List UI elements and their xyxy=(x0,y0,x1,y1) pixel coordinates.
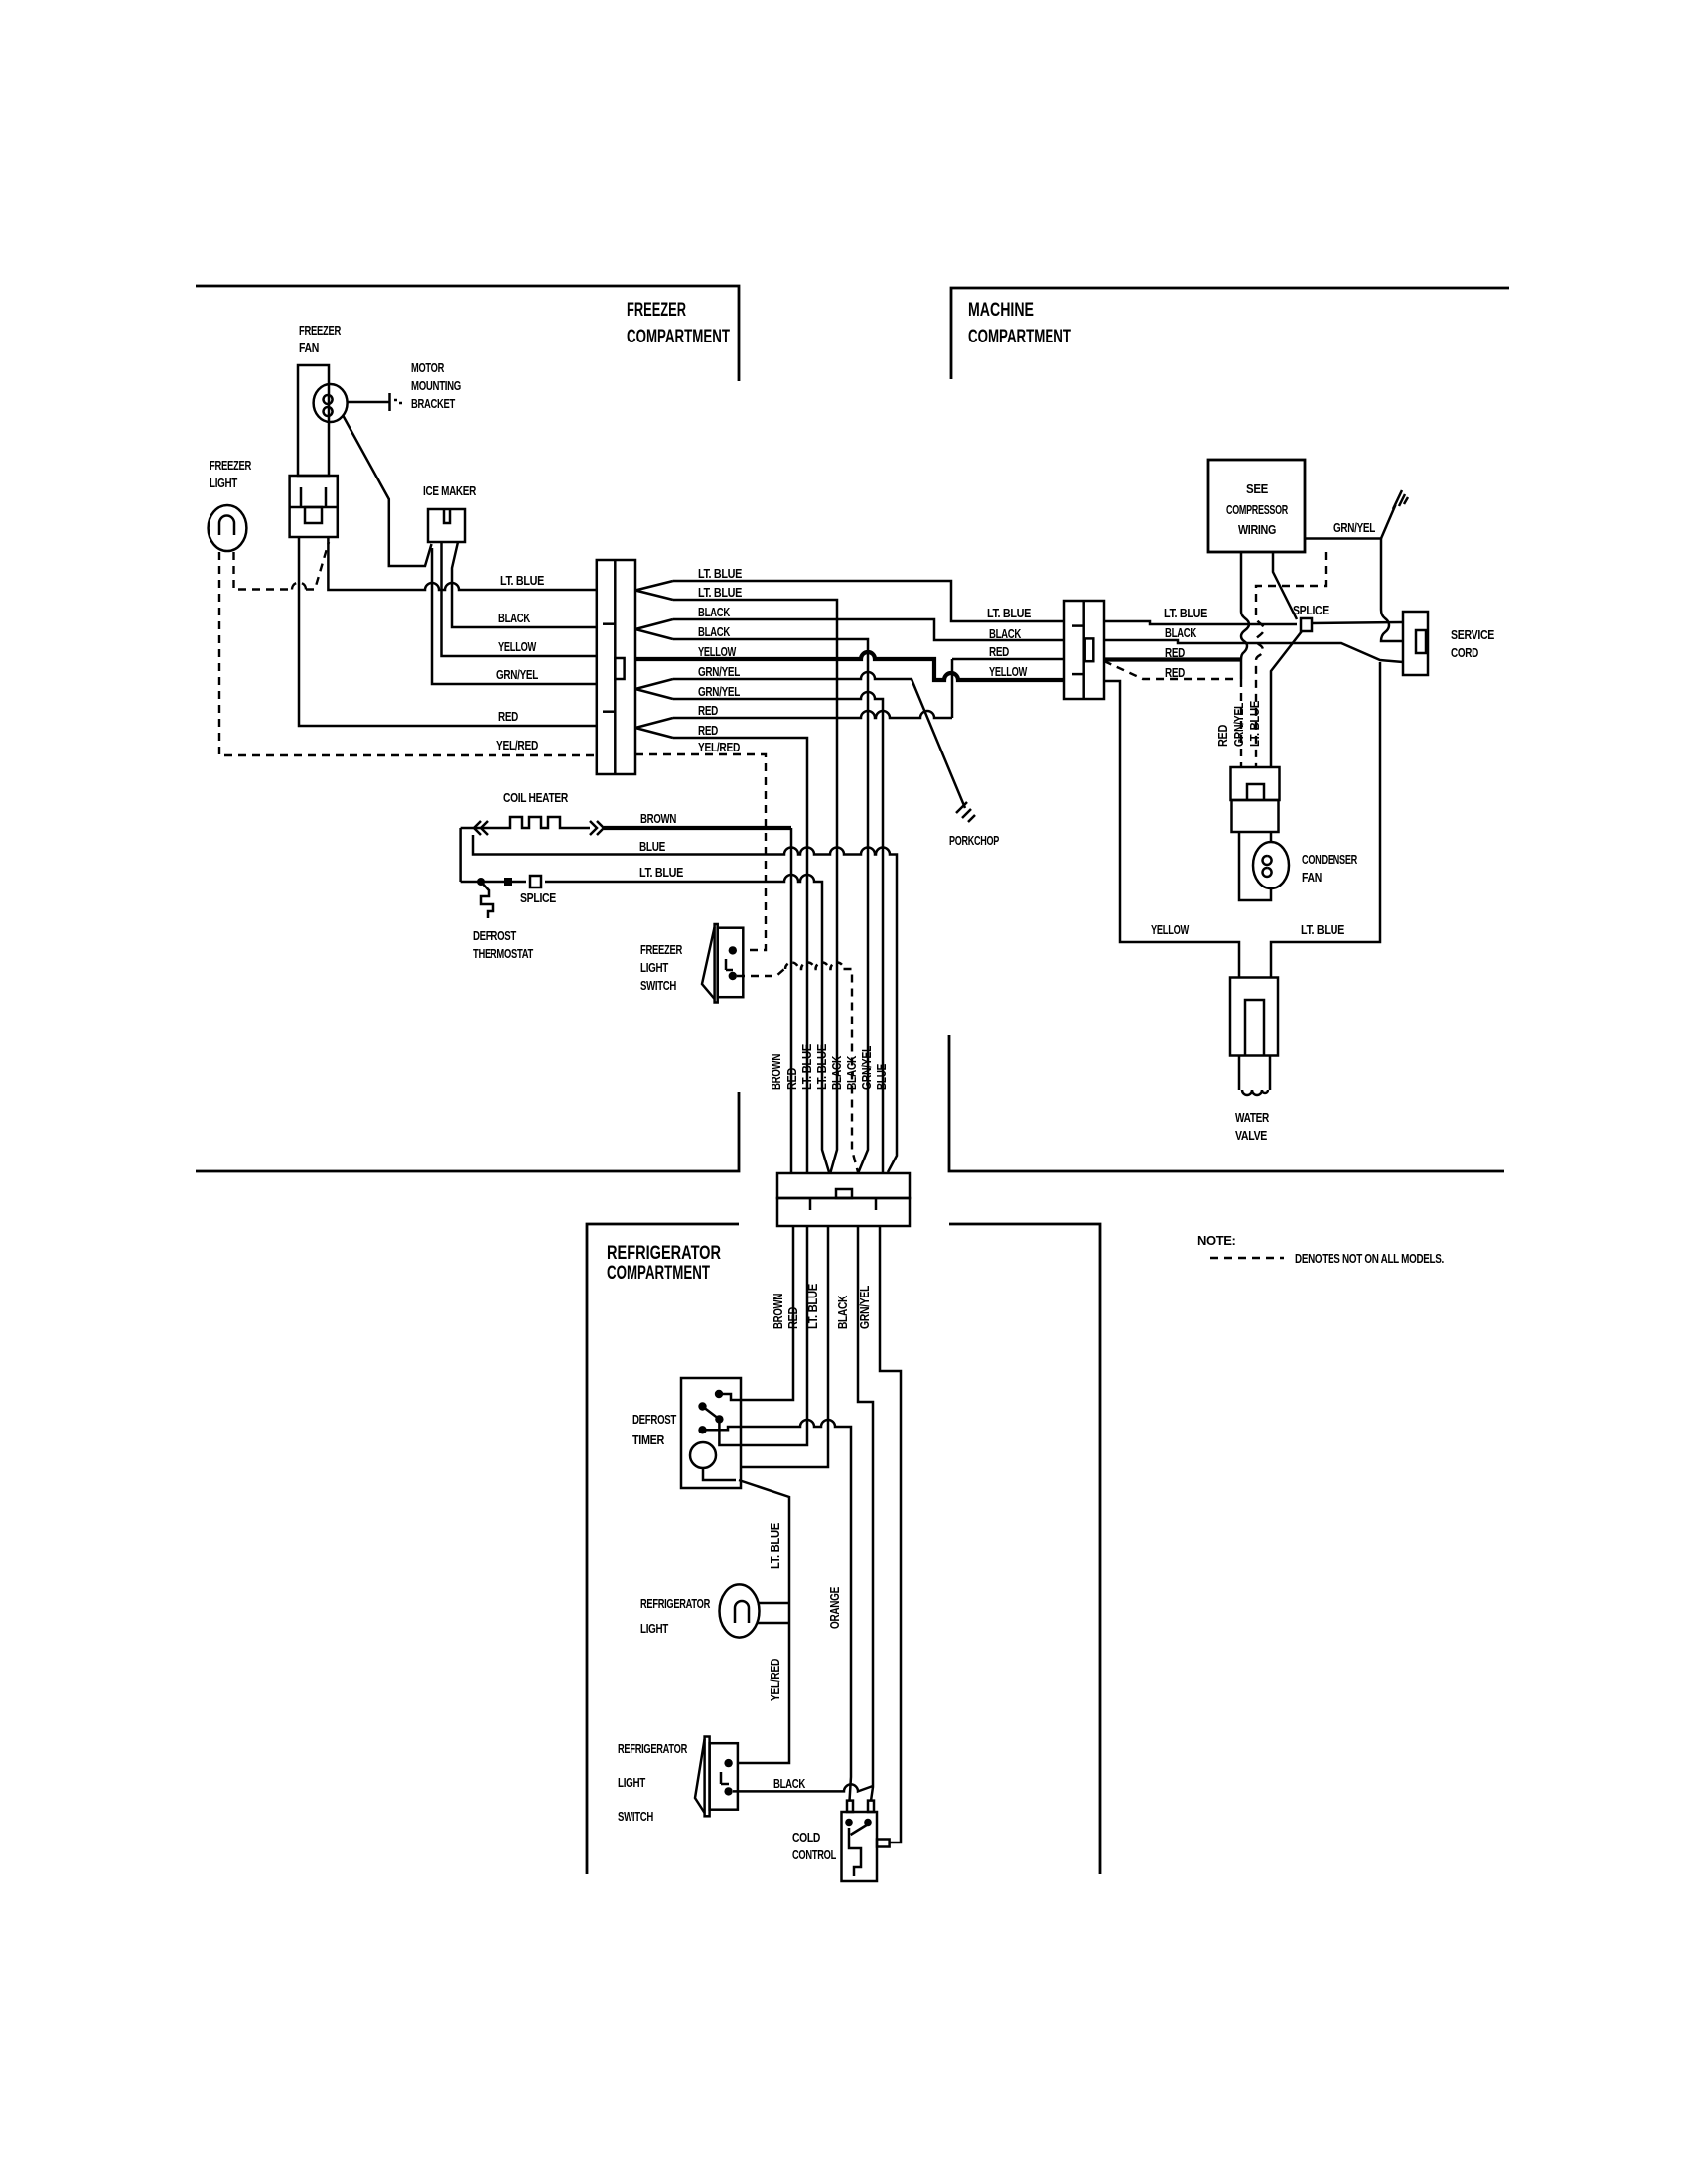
svg-text:SERVICE: SERVICE xyxy=(1451,627,1495,642)
wire YELLOW thick connector A to connector B xyxy=(635,652,1064,680)
svg-text:FREEZER: FREEZER xyxy=(640,942,683,957)
water valve plug xyxy=(1230,978,1278,1056)
svg-text:REFRIGERATOR: REFRIGERATOR xyxy=(618,1741,688,1756)
label REFRIGERATOR LIGHT xyxy=(640,1596,711,1636)
svg-text:BROWN: BROWN xyxy=(771,1294,785,1329)
label DEFROST TIMER xyxy=(632,1412,676,1447)
label COLD CONTROL xyxy=(792,1830,836,1862)
defrost timer motor xyxy=(690,1442,736,1480)
service cord connector xyxy=(1403,612,1428,675)
svg-text:COIL HEATER: COIL HEATER xyxy=(503,790,569,805)
refrigerator compartment border xyxy=(587,1224,1100,1874)
svg-text:RED: RED xyxy=(698,703,718,718)
svg-text:CONDENSER: CONDENSER xyxy=(1302,852,1358,867)
svg-text:REFRIGERATOR: REFRIGERATOR xyxy=(640,1596,711,1611)
svg-text:YEL/RED: YEL/RED xyxy=(496,738,538,752)
condenser fan motor xyxy=(1253,842,1289,888)
wire GRN/YEL 2 down to refrigerator bundle xyxy=(673,692,883,1172)
svg-text:NOTE:: NOTE: xyxy=(1197,1233,1236,1248)
svg-text:DEFROST: DEFROST xyxy=(632,1412,676,1427)
label SERVICE CORD xyxy=(1451,627,1495,660)
svg-text:BLACK: BLACK xyxy=(773,1776,806,1791)
svg-text:GRN/YEL: GRN/YEL xyxy=(859,1046,874,1090)
label LT. BLUE xyxy=(639,865,684,880)
svg-text:GRN/YEL: GRN/YEL xyxy=(1231,703,1246,747)
wire YELLOW connector B to water valve xyxy=(1104,681,1239,978)
wire GRN/YEL compressor to bracket and cord xyxy=(1305,490,1408,641)
freezer fan body xyxy=(298,365,329,476)
wire RED 2 down to refrigerator bundle xyxy=(673,738,807,1172)
label REFRIGERATOR COMPARTMENT xyxy=(607,1243,721,1284)
splice square on LT.BLUE xyxy=(504,876,541,887)
wire LT.BLUE 2 down to refrigerator bundle xyxy=(673,600,837,1172)
label ICE MAKER xyxy=(423,483,477,498)
svg-text:BROWN: BROWN xyxy=(769,1054,783,1090)
svg-text:BLACK: BLACK xyxy=(844,1055,859,1090)
vertical bundle labels lower xyxy=(771,1283,872,1329)
wire LT.BLUE service line down to water valve xyxy=(1271,662,1380,978)
svg-text:BLACK: BLACK xyxy=(989,626,1022,641)
connector A xyxy=(597,560,635,774)
defrost thermostat xyxy=(477,878,493,918)
wire motor bracket to ice maker pin 1 xyxy=(343,415,432,566)
svg-text:GRN/YEL: GRN/YEL xyxy=(698,664,740,679)
svg-text:MOUNTING: MOUNTING xyxy=(411,378,461,393)
wire RED to defrost timer xyxy=(719,1226,807,1445)
svg-text:RED: RED xyxy=(698,723,718,738)
svg-text:DENOTES NOT ON ALL MODELS.: DENOTES NOT ON ALL MODELS. xyxy=(1295,1251,1444,1266)
label CONDENSER FAN xyxy=(1302,852,1358,885)
freezer fan motor M1 xyxy=(314,384,348,422)
freezer compartment border top xyxy=(196,286,739,381)
wire RED dashed from connector B to condenser fan xyxy=(1104,661,1239,680)
svg-text:RED: RED xyxy=(989,644,1009,659)
svg-text:BLACK: BLACK xyxy=(698,624,731,639)
svg-text:LT. BLUE: LT. BLUE xyxy=(639,865,684,880)
wire YEL/RED dashed to freezer light switch xyxy=(635,754,766,950)
label WATER VALVE xyxy=(1235,1110,1270,1143)
svg-text:FAN: FAN xyxy=(299,341,319,355)
svg-text:VALVE: VALVE xyxy=(1235,1128,1268,1143)
svg-text:WATER: WATER xyxy=(1235,1110,1270,1125)
wire LT.BLUE to defrost timer xyxy=(741,1226,828,1467)
connector A right side labels xyxy=(698,566,743,754)
svg-text:BLUE: BLUE xyxy=(874,1063,889,1090)
label BLUE xyxy=(639,839,666,854)
svg-text:LT. BLUE: LT. BLUE xyxy=(1164,606,1208,620)
svg-text:DEFROST: DEFROST xyxy=(473,928,516,943)
wire freezer light dashed to relay xyxy=(234,542,330,590)
label MACHINE COMPARTMENT xyxy=(968,300,1071,347)
wire LT.BLUE pair split from connector A xyxy=(635,581,673,600)
label COIL HEATER xyxy=(503,790,569,805)
wire GRN/YEL ground branch to connector A xyxy=(432,548,596,684)
wire ice maker pin3 BLACK to connector A xyxy=(452,542,596,627)
svg-text:TIMER: TIMER xyxy=(632,1433,665,1447)
label YEL/RED refrigerator xyxy=(768,1659,782,1701)
svg-text:BRACKET: BRACKET xyxy=(411,396,455,411)
wire freezer light switch dashed BLACK with hops xyxy=(737,963,858,1172)
refrigerator light switch xyxy=(695,1737,738,1817)
svg-text:SPLICE: SPLICE xyxy=(520,890,557,905)
svg-text:BLACK: BLACK xyxy=(1165,625,1197,640)
svg-text:REFRIGERATOR: REFRIGERATOR xyxy=(607,1243,721,1264)
wire condenser fan bottom loop xyxy=(1239,832,1271,900)
svg-text:LT. BLUE: LT. BLUE xyxy=(698,566,743,581)
label GRN/YEL compressor xyxy=(1333,520,1375,535)
svg-text:SEE: SEE xyxy=(1246,481,1269,496)
svg-text:GRN/YEL: GRN/YEL xyxy=(1333,520,1375,535)
connector A left labels xyxy=(496,573,545,752)
wire BLACK pair split from connector A xyxy=(635,619,673,639)
label FREEZER COMPARTMENT xyxy=(627,300,730,347)
splice square xyxy=(1301,618,1312,631)
svg-text:YELLOW: YELLOW xyxy=(498,639,537,654)
wire splice to condenser fan LT.BLUE xyxy=(1271,631,1302,767)
svg-text:BLUE: BLUE xyxy=(639,839,666,854)
svg-text:THERMOSTAT: THERMOSTAT xyxy=(473,946,533,961)
svg-text:SPLICE: SPLICE xyxy=(1293,603,1330,617)
label SPLICE machine xyxy=(1293,603,1330,617)
wire dashed GRN/YEL compressor branch xyxy=(1256,552,1326,767)
ice maker block xyxy=(428,509,465,542)
label SPLICE xyxy=(520,890,557,905)
wire BROWN heater to bundle xyxy=(604,828,791,1173)
wire RED pair split from connector A xyxy=(635,718,673,738)
cold control thermostat xyxy=(842,1801,890,1881)
vertical bundle labels upper xyxy=(769,1043,889,1090)
svg-text:LT. BLUE: LT. BLUE xyxy=(987,606,1032,620)
svg-text:FAN: FAN xyxy=(1302,870,1322,885)
motor mounting bracket symbol xyxy=(347,393,402,411)
svg-text:LT. BLUE: LT. BLUE xyxy=(1301,922,1345,937)
connector B right labels xyxy=(1164,606,1208,660)
svg-text:YEL/RED: YEL/RED xyxy=(768,1659,782,1701)
label LT. BLUE machine xyxy=(1301,922,1345,937)
svg-text:COMPARTMENT: COMPARTMENT xyxy=(607,1263,710,1284)
wire BROWN to defrost timer xyxy=(741,1226,793,1400)
freezer light bulb xyxy=(209,505,247,551)
water valve coil xyxy=(1239,1056,1270,1096)
label FREEZER LIGHT xyxy=(210,458,252,490)
svg-text:COMPRESSOR: COMPRESSOR xyxy=(1226,502,1289,517)
condenser fan labels RED GRN/YEL LT.BLUE xyxy=(1215,700,1262,747)
condenser fan connector plug xyxy=(1231,767,1280,832)
svg-text:BLACK: BLACK xyxy=(698,605,731,619)
label MOTOR MOUNTING BRACKET xyxy=(411,360,461,411)
freezer compartment border bottom xyxy=(196,1092,739,1171)
svg-text:LIGHT: LIGHT xyxy=(210,476,237,490)
svg-text:GRN/YEL: GRN/YEL xyxy=(698,684,740,699)
svg-text:LT. BLUE: LT. BLUE xyxy=(1247,700,1262,747)
svg-text:LIGHT: LIGHT xyxy=(618,1775,645,1790)
label DEFROST THERMOSTAT xyxy=(473,928,533,961)
svg-text:SWITCH: SWITCH xyxy=(618,1809,653,1824)
wire splice to service cord LT.BLUE xyxy=(1312,622,1403,623)
svg-text:WIRING: WIRING xyxy=(1238,522,1276,537)
wire vertical RED riser to B xyxy=(952,659,1064,718)
label PORKCHOP xyxy=(949,833,1000,848)
svg-text:BLACK: BLACK xyxy=(498,611,531,625)
freezer light switch xyxy=(702,924,743,1003)
svg-text:CONTROL: CONTROL xyxy=(792,1847,836,1862)
svg-text:FREEZER: FREEZER xyxy=(299,323,342,338)
svg-text:YELLOW: YELLOW xyxy=(1151,922,1190,937)
svg-text:GRN/YEL: GRN/YEL xyxy=(496,667,538,682)
svg-text:COLD: COLD xyxy=(792,1830,820,1844)
wire LT.BLUE defrost thermostat line with hops xyxy=(461,875,829,1172)
svg-text:RED: RED xyxy=(784,1068,799,1090)
wire RED from connector B to compressor leg xyxy=(1104,657,1241,661)
defrost timer contacts xyxy=(698,1390,741,1434)
connector B xyxy=(1064,601,1104,699)
wire BLACK 1 to connector B xyxy=(673,619,1064,640)
svg-text:RED: RED xyxy=(498,709,518,724)
label SEE COMPRESSOR WIRING xyxy=(1226,481,1289,537)
wire BLACK light switch to cold control xyxy=(733,1784,873,1791)
svg-text:YELLOW: YELLOW xyxy=(698,644,737,659)
svg-text:LT. BLUE: LT. BLUE xyxy=(814,1043,829,1090)
freezer fan relay block xyxy=(290,476,338,537)
machine compartment border bottom xyxy=(949,1035,1504,1171)
svg-text:BLACK: BLACK xyxy=(829,1055,844,1090)
svg-text:YEL/RED: YEL/RED xyxy=(698,740,740,754)
svg-text:FREEZER: FREEZER xyxy=(210,458,252,473)
connector C refrigerator harness xyxy=(777,1173,910,1226)
coil heater element BROWN line xyxy=(474,817,604,835)
svg-text:YELLOW: YELLOW xyxy=(989,664,1028,679)
wire freezer light YEL/RED dashed to connector A xyxy=(219,552,596,755)
note legend xyxy=(1197,1233,1444,1266)
svg-text:RED: RED xyxy=(1165,665,1185,680)
label REFRIGERATOR LIGHT SWITCH xyxy=(618,1741,688,1824)
label ORANGE xyxy=(827,1586,842,1629)
wire heater left end down xyxy=(461,828,474,882)
compressor box xyxy=(1208,460,1305,552)
label LT. BLUE refrigerator xyxy=(768,1522,782,1569)
wire ice maker pin2 YELLOW to connector A xyxy=(442,542,597,656)
svg-text:LIGHT: LIGHT xyxy=(640,960,668,975)
wire BLACK connector B to service cord xyxy=(1104,640,1403,662)
svg-text:LT. BLUE: LT. BLUE xyxy=(500,573,545,588)
svg-text:COMPARTMENT: COMPARTMENT xyxy=(968,327,1071,347)
svg-text:MOTOR: MOTOR xyxy=(411,360,445,375)
wire ORANGE defrost timer to cold control with hops xyxy=(703,1420,852,1801)
svg-text:PORKCHOP: PORKCHOP xyxy=(949,833,1000,848)
svg-text:MACHINE: MACHINE xyxy=(968,300,1034,321)
wire RED relay to connector A xyxy=(299,537,596,726)
svg-text:LIGHT: LIGHT xyxy=(640,1621,668,1636)
svg-text:FREEZER: FREEZER xyxy=(627,300,686,321)
svg-text:SWITCH: SWITCH xyxy=(640,978,676,993)
label BLACK refrigerator xyxy=(773,1776,806,1791)
label FREEZER LIGHT SWITCH xyxy=(640,942,683,993)
wire GRN/YEL pair split from connector A xyxy=(635,679,673,699)
svg-text:ORANGE: ORANGE xyxy=(827,1586,842,1629)
connector B left labels xyxy=(987,606,1032,679)
machine compartment border top xyxy=(951,288,1509,379)
wire LT BLUE relay to connector A with hops xyxy=(328,537,596,590)
svg-text:ICE MAKER: ICE MAKER xyxy=(423,483,477,498)
svg-text:COMPARTMENT: COMPARTMENT xyxy=(627,327,730,347)
svg-text:LT. BLUE: LT. BLUE xyxy=(768,1522,782,1569)
wire BLUE heater to bundle with hops xyxy=(473,835,897,1172)
wire BLACK 2 down to refrigerator bundle xyxy=(673,639,868,1172)
label YELLOW machine xyxy=(1151,922,1190,937)
svg-text:BROWN: BROWN xyxy=(640,811,676,826)
defrost timer box xyxy=(681,1378,741,1488)
wire compressor right pin to splice xyxy=(1273,552,1297,619)
wire LT.BLUE connector B to splice xyxy=(1104,621,1297,624)
svg-text:LT. BLUE: LT. BLUE xyxy=(698,585,743,600)
porkchop ground symbol xyxy=(912,679,975,822)
svg-text:BLACK: BLACK xyxy=(835,1295,850,1329)
wire compressor left pin RED xyxy=(1241,552,1249,767)
wire GRN/YEL to cold control tab xyxy=(880,1226,901,1843)
wire LT.BLUE 1 to connector B xyxy=(673,581,1064,621)
label BROWN xyxy=(640,811,676,826)
refrigerator light bulb xyxy=(720,1584,790,1637)
svg-text:CORD: CORD xyxy=(1451,645,1478,660)
wire GRN/YEL 1 to porkchop ground xyxy=(673,672,912,679)
svg-text:LT. BLUE: LT. BLUE xyxy=(799,1043,814,1090)
label FREEZER FAN xyxy=(299,323,342,355)
svg-text:RED: RED xyxy=(1215,725,1230,747)
wire BLACK to cold control xyxy=(858,1226,873,1801)
wire RED 1 to connector B red xyxy=(673,711,952,718)
wire LT.BLUE timer to refrigerator light xyxy=(737,1480,789,1763)
